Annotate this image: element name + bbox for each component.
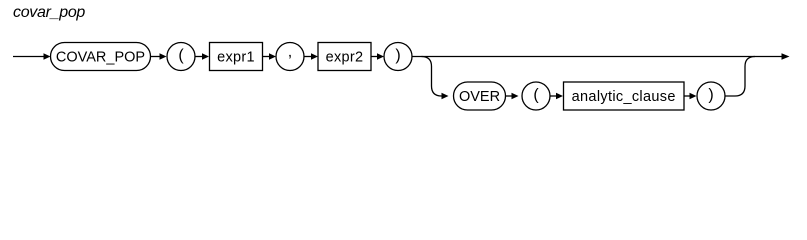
arrowhead into lower )	[690, 93, 697, 100]
wire: COVAR_POP to (	[151, 56, 161, 58]
svg-text:): )	[395, 47, 400, 64]
arrowhead into lower (	[512, 93, 519, 100]
nonterminal analytic_clause	[564, 82, 685, 110]
svg-text:COVAR_POP: COVAR_POP	[56, 49, 145, 65]
terminal comma	[276, 43, 304, 71]
arrowhead into analytic_clause	[556, 93, 563, 100]
arrowhead into OVER	[442, 93, 449, 100]
terminal )	[384, 43, 412, 71]
wire: main rail to end	[412, 56, 782, 58]
wire: expr1 to comma	[263, 56, 270, 58]
arrowhead into )	[377, 53, 384, 60]
terminal lower (	[522, 82, 550, 110]
nonterminal expr2	[318, 43, 371, 71]
svg-text:): )	[708, 87, 713, 104]
terminal OVER	[454, 82, 506, 110]
wire: return curve up to main rail	[725, 57, 755, 97]
arrowhead into (	[160, 53, 167, 60]
wire: comma to expr2	[304, 56, 312, 58]
svg-text:covar_pop: covar_pop	[13, 4, 85, 21]
wire: expr2 to )	[371, 56, 378, 58]
arrowhead into expr1	[202, 53, 209, 60]
wire: OVER to (	[506, 95, 513, 97]
wire: start line	[13, 56, 44, 58]
svg-text:OVER: OVER	[459, 89, 500, 105]
svg-text:expr2: expr2	[326, 49, 364, 65]
arrowhead into comma	[269, 53, 276, 60]
terminal lower )	[697, 82, 725, 110]
arrowhead at end of rail	[782, 53, 790, 60]
svg-text:(: (	[178, 47, 184, 64]
svg-text:analytic_clause: analytic_clause	[572, 89, 676, 105]
terminal COVAR_POP	[51, 43, 151, 71]
arrowhead into expr2	[311, 53, 318, 60]
wire: branch down to OVER row	[422, 57, 442, 97]
wire: ( to analytic_clause	[550, 95, 557, 97]
nonterminal expr1	[210, 43, 263, 71]
svg-text:,: ,	[288, 43, 292, 60]
svg-text:(: (	[533, 87, 539, 104]
arrowhead into COVAR_POP	[44, 53, 51, 60]
terminal (	[167, 43, 195, 71]
wire: analytic_clause to )	[684, 95, 690, 97]
svg-text:expr1: expr1	[217, 49, 255, 65]
wire: ( to expr1	[195, 56, 203, 58]
